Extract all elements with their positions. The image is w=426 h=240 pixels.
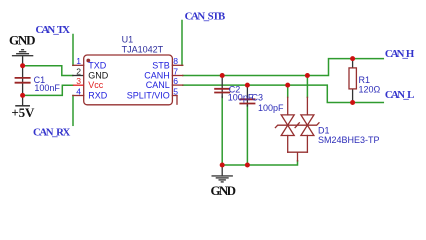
svg-text:CAN_STB: CAN_STB — [185, 11, 226, 23]
svg-text:CAN_RX: CAN_RX — [33, 126, 70, 138]
svg-text:GND: GND — [211, 183, 237, 198]
svg-text:Vcc: Vcc — [88, 80, 104, 90]
svg-text:4: 4 — [76, 86, 81, 96]
svg-text:R1: R1 — [359, 75, 371, 85]
svg-text:+5V: +5V — [11, 105, 35, 120]
svg-text:STB: STB — [152, 60, 170, 70]
svg-text:RXD: RXD — [88, 91, 108, 101]
svg-text:100pF: 100pF — [258, 103, 284, 113]
svg-text:CAN_TX: CAN_TX — [36, 24, 71, 36]
svg-text:SPLIT/VIO: SPLIT/VIO — [127, 91, 170, 101]
svg-text:U1: U1 — [122, 35, 134, 45]
svg-text:1: 1 — [76, 56, 81, 66]
svg-text:5: 5 — [173, 86, 178, 96]
svg-text:GND: GND — [88, 71, 109, 81]
svg-text:TJA1042T: TJA1042T — [122, 44, 164, 54]
svg-text:7: 7 — [173, 66, 178, 76]
svg-text:GND: GND — [9, 32, 36, 47]
svg-text:CANH: CANH — [144, 71, 170, 81]
svg-text:120Ω: 120Ω — [359, 85, 381, 95]
svg-text:TXD: TXD — [88, 60, 107, 70]
svg-text:SM24BHE3-TP: SM24BHE3-TP — [318, 135, 380, 145]
svg-text:100nF: 100nF — [34, 83, 60, 93]
svg-text:C3: C3 — [252, 92, 264, 102]
svg-text:8: 8 — [173, 56, 178, 66]
svg-text:3: 3 — [76, 76, 81, 86]
svg-text:CANL: CANL — [146, 80, 170, 90]
svg-text:CAN_L: CAN_L — [385, 89, 414, 101]
svg-text:2: 2 — [76, 66, 81, 76]
svg-text:100pF: 100pF — [228, 92, 254, 102]
svg-text:CAN_H: CAN_H — [385, 48, 415, 60]
svg-text:D1: D1 — [318, 126, 330, 136]
svg-text:6: 6 — [173, 76, 178, 86]
